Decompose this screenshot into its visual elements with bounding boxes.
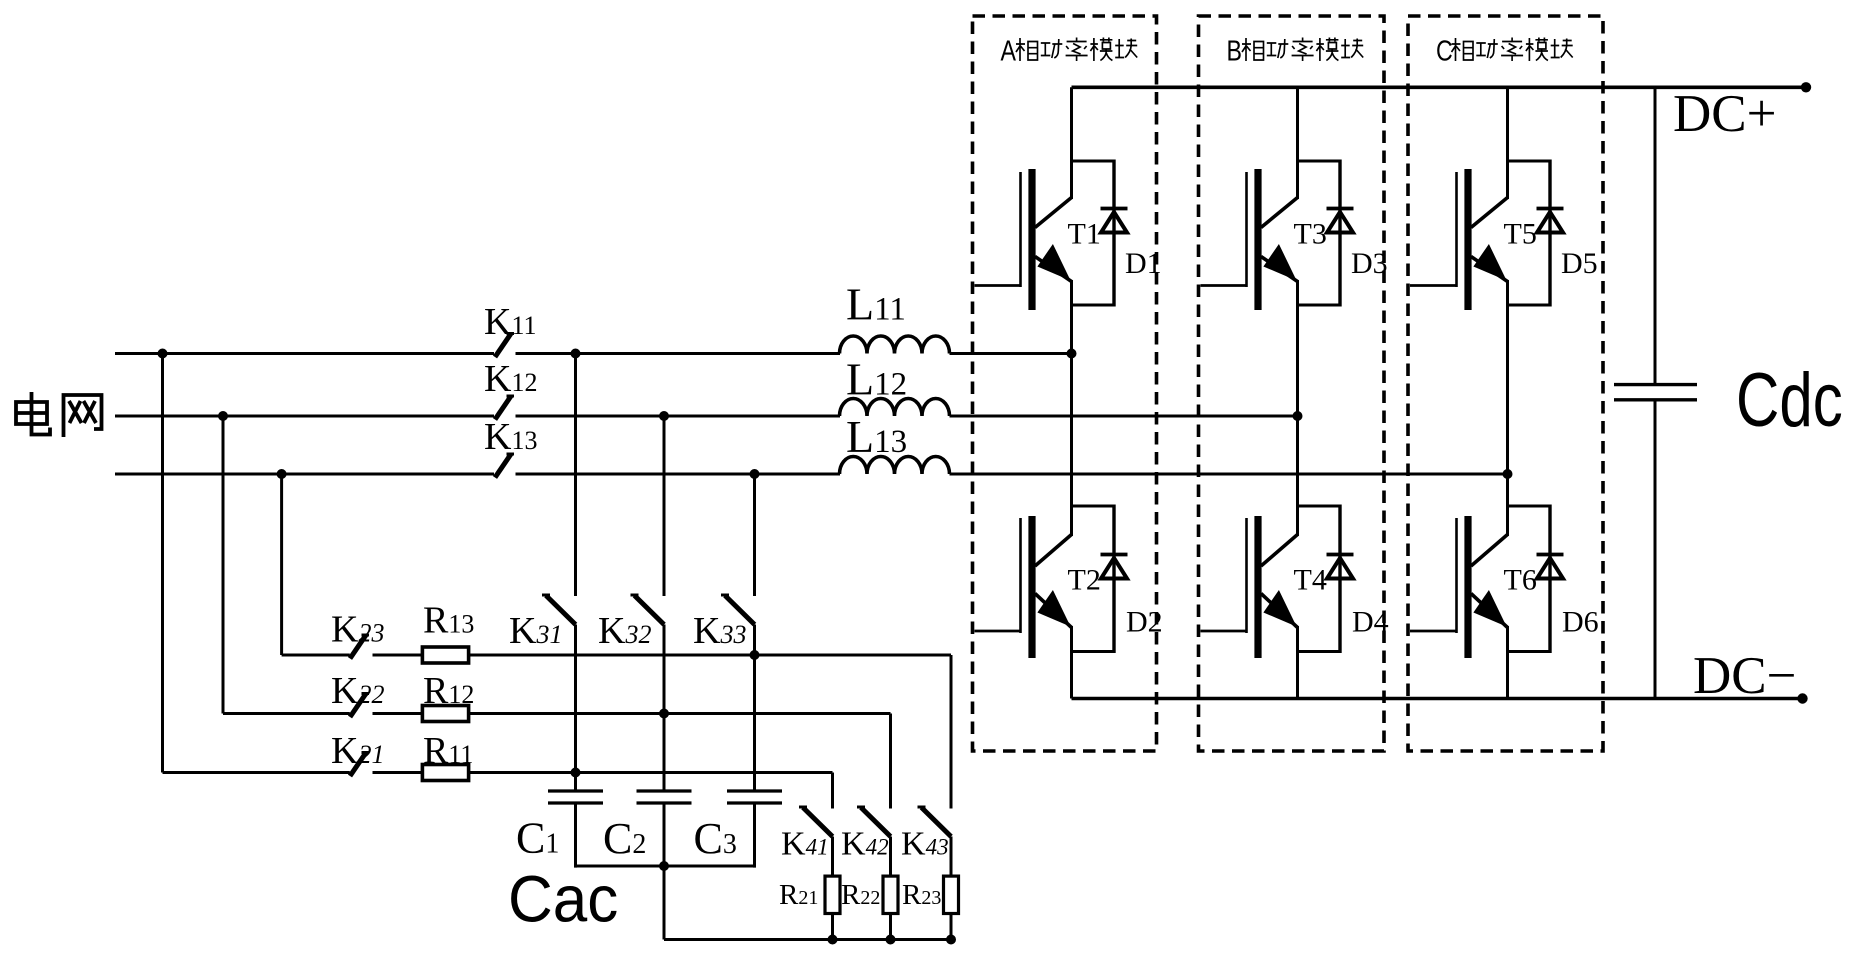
svg-text:DC+: DC+ [1673, 85, 1777, 143]
wire K41 to R21 [831, 837, 834, 877]
emitter arrow T3 [1263, 244, 1296, 281]
gate wire T1 [975, 284, 1021, 287]
node DC+ terminal [1801, 82, 1811, 92]
wire R23 lower lead [950, 914, 953, 940]
svg-text:D6: D6 [1562, 606, 1599, 639]
wire grid phase b segment 2 [516, 415, 841, 418]
wire T3 emitter lead [1296, 280, 1299, 416]
collector diagonal T2 [1035, 535, 1072, 567]
gate electrode line T1 [1019, 172, 1022, 287]
wire R21 lower lead [831, 914, 834, 940]
wire K21 row lead-in [163, 771, 350, 774]
capacitor C2 [637, 789, 692, 792]
resistor R12 [422, 706, 468, 722]
diode branch top wire D1 [1072, 160, 1115, 163]
diode branch wire D5 [1548, 160, 1551, 307]
emitter diagonal T1 [1035, 257, 1072, 282]
wire K23 row lead-in [282, 654, 350, 657]
wire R11 row lead-out [469, 771, 833, 774]
diode triangle D1 [1101, 212, 1127, 233]
node phase C output [1503, 469, 1513, 479]
IGBT body bar T2 [1028, 516, 1035, 658]
resistor R23 [944, 876, 959, 913]
wire T2 collector lead [1070, 354, 1073, 537]
diode cathode bar D4 [1327, 553, 1354, 557]
resistor R22 [883, 876, 898, 913]
gate wire T6 [1410, 630, 1457, 633]
wire K33 lower lead [753, 625, 756, 792]
IGBT body bar T4 [1254, 516, 1261, 658]
wire Cdc upper lead [1654, 87, 1657, 383]
wire T6 collector lead [1506, 474, 1509, 536]
capacitor Cdc [1614, 383, 1697, 386]
wire phase b left drop [222, 416, 225, 714]
wire grid phase a segment 2 [516, 352, 841, 355]
label C相功率模块 [1436, 34, 1573, 67]
node R22 bottom junction [886, 935, 896, 945]
diode branch wire D2 [1112, 505, 1115, 654]
svg-text:D1: D1 [1125, 247, 1162, 280]
capacitor C1 [548, 789, 603, 792]
diode triangle D3 [1327, 212, 1353, 233]
emitter diagonal T3 [1261, 257, 1298, 282]
wire DC- rail [1072, 697, 1803, 701]
gate electrode line T4 [1245, 518, 1248, 633]
wire K42 upper lead [889, 714, 892, 809]
emitter diagonal T5 [1471, 257, 1508, 282]
node R23 bottom junction [946, 935, 956, 945]
wire K33 upper lead [753, 474, 756, 596]
svg-text:T5: T5 [1504, 218, 1537, 251]
svg-text:D2: D2 [1126, 606, 1163, 639]
wire T5 emitter lead [1506, 280, 1509, 474]
node DC- terminal [1797, 693, 1807, 703]
emitter arrow T1 [1037, 244, 1070, 281]
collector diagonal T1 [1035, 198, 1072, 228]
wire T4 emitter lead [1296, 626, 1299, 699]
node phase b left tap [218, 411, 228, 421]
svg-text:Cac: Cac [508, 862, 618, 936]
diode branch top wire D2 [1072, 505, 1115, 508]
wire K32 upper lead [663, 416, 666, 596]
svg-text:T2: T2 [1068, 564, 1101, 597]
wire C3 bottom lead [753, 803, 756, 868]
switch K42 [861, 808, 891, 837]
diode cathode bar D5 [1537, 207, 1564, 211]
wire C2 bottom lead [663, 803, 666, 868]
switch K32 [635, 596, 665, 625]
wire capacitor tie bar [576, 865, 755, 868]
wire grid phase c segment 3 [950, 473, 1508, 476]
svg-text:C: C [1436, 34, 1453, 67]
collector diagonal T5 [1471, 198, 1508, 228]
resistor R13 [422, 647, 468, 663]
wire R13 row lead-out [469, 654, 951, 657]
node R11-K31 junction [571, 768, 581, 778]
label Cac [508, 862, 618, 936]
node R12-K32 junction [659, 709, 669, 719]
switch K13 [495, 454, 511, 478]
svg-text:T4: T4 [1294, 564, 1327, 597]
node phase b right tap [659, 411, 669, 421]
svg-text:A: A [1001, 34, 1017, 67]
label A相功率模块 [1001, 34, 1138, 67]
diode branch top wire D4 [1298, 505, 1341, 508]
resistor R11 [422, 765, 468, 781]
diode cathode bar D6 [1537, 553, 1564, 557]
wire K42 to R22 [889, 837, 892, 877]
switch K41 [803, 808, 833, 837]
wire C1 bottom lead [574, 803, 577, 868]
wire grid phase a segment 3 [950, 352, 1072, 355]
node phase c left tap [277, 469, 287, 479]
wire grid phase c segment 1 [115, 473, 494, 476]
wire grid phase a segment 1 [115, 352, 494, 355]
IGBT body bar T3 [1254, 169, 1261, 310]
diode cathode bar D2 [1101, 553, 1128, 557]
svg-text:T1: T1 [1068, 218, 1101, 251]
wire K43 upper lead [950, 655, 953, 809]
diode branch wire D3 [1338, 160, 1341, 307]
switch K33 [725, 596, 755, 625]
wire K31 lower lead [574, 625, 577, 792]
emitter diagonal T4 [1261, 594, 1298, 628]
inductor L13 [840, 457, 950, 475]
IGBT body bar T1 [1028, 169, 1035, 310]
module box A [973, 16, 1157, 751]
resistor R21 [825, 876, 840, 913]
svg-text:Cdc: Cdc [1736, 357, 1843, 443]
diode triangle D4 [1327, 558, 1353, 579]
switch K23 [350, 635, 366, 659]
svg-text:D3: D3 [1351, 247, 1388, 280]
diode branch top wire D6 [1508, 505, 1551, 508]
gate wire T3 [1201, 284, 1247, 287]
wire R22 lower lead [889, 914, 892, 940]
wire T5 collector lead [1506, 87, 1509, 199]
emitter diagonal T6 [1471, 594, 1508, 628]
gate wire T5 [1410, 284, 1457, 287]
diode branch bottom wire D2 [1072, 650, 1115, 653]
switch K22 [350, 694, 366, 718]
label B相功率模块 [1227, 34, 1364, 67]
module box B [1199, 16, 1385, 751]
wire K32 lower lead [663, 625, 666, 792]
IGBT body bar T6 [1464, 516, 1471, 658]
wire T1 collector lead [1070, 87, 1073, 199]
wire K23 to R13 [373, 654, 424, 657]
label 电网 (grid) [16, 392, 50, 435]
wire K22 to R12 [373, 712, 424, 715]
wire grid phase b segment 3 [950, 415, 1298, 418]
wire grid phase c segment 2 [516, 473, 841, 476]
svg-text:D4: D4 [1352, 606, 1389, 639]
IGBT body bar T5 [1464, 169, 1471, 310]
switch K21 [350, 753, 366, 777]
diode branch bottom wire D4 [1298, 650, 1341, 653]
gate electrode line T6 [1455, 518, 1458, 633]
capacitor C3 [727, 789, 782, 792]
svg-text:T6: T6 [1504, 564, 1537, 597]
emitter arrow T5 [1473, 244, 1506, 281]
diode triangle D2 [1101, 558, 1127, 579]
svg-text:DC−: DC− [1693, 647, 1797, 705]
module box C [1408, 16, 1603, 751]
collector diagonal T4 [1261, 535, 1298, 567]
gate electrode line T2 [1019, 518, 1022, 633]
wire discharge bottom bus [664, 938, 951, 941]
diode branch bottom wire D3 [1298, 304, 1341, 307]
wire T1 emitter lead [1070, 280, 1073, 354]
svg-text:B: B [1227, 34, 1242, 67]
diode triangle D5 [1537, 212, 1563, 233]
wire K31 upper lead [574, 354, 577, 597]
diode branch bottom wire D5 [1508, 304, 1551, 307]
wire grid phase b segment 1 [115, 415, 494, 418]
node R21 bottom junction [828, 935, 838, 945]
emitter diagonal T2 [1035, 594, 1072, 628]
diode cathode bar D3 [1327, 207, 1354, 211]
node phase c right tap [750, 469, 760, 479]
node phase B output [1293, 411, 1303, 421]
collector diagonal T3 [1261, 198, 1298, 228]
wire T2 emitter lead [1070, 626, 1073, 699]
wire K22 row lead-in [223, 712, 350, 715]
wire phase a left drop [161, 354, 164, 773]
switch K43 [922, 808, 952, 837]
diode branch wire D4 [1338, 505, 1341, 654]
diode triangle D6 [1537, 558, 1563, 579]
wire R12 row lead-out [469, 712, 891, 715]
gate wire T4 [1201, 630, 1247, 633]
diode branch top wire D5 [1508, 160, 1551, 163]
inductor L11 [840, 336, 950, 354]
node phase a right tap [571, 349, 581, 359]
diode branch wire D1 [1112, 160, 1115, 307]
node phase a left tap [158, 349, 168, 359]
label Cdc [1736, 357, 1843, 443]
emitter arrow T2 [1037, 590, 1070, 627]
inductor L12 [840, 399, 950, 417]
diode branch top wire D3 [1298, 160, 1341, 163]
switch K12 [495, 396, 511, 420]
wire K41 upper lead [831, 773, 834, 809]
diode branch bottom wire D6 [1508, 650, 1551, 653]
diode branch bottom wire D1 [1072, 304, 1115, 307]
node R13-K33 junction [750, 650, 760, 660]
node phase A output [1067, 349, 1077, 359]
gate electrode line T5 [1455, 172, 1458, 287]
wire T4 collector lead [1296, 416, 1299, 536]
wire Cdc lower lead [1654, 400, 1657, 699]
wire phase c left drop [280, 474, 283, 655]
wire DC+ rail [1072, 86, 1807, 90]
emitter arrow T4 [1263, 590, 1296, 627]
collector diagonal T6 [1471, 535, 1508, 567]
gate electrode line T3 [1245, 172, 1248, 287]
wire tie drop [663, 866, 666, 940]
wire K21 to R11 [373, 771, 424, 774]
node capacitor tie junction [659, 861, 669, 871]
switch K31 [546, 596, 576, 625]
diode branch wire D6 [1548, 505, 1551, 654]
emitter arrow T6 [1473, 590, 1506, 627]
wire T6 emitter lead [1506, 626, 1509, 699]
gate wire T2 [975, 630, 1021, 633]
svg-text:D5: D5 [1561, 247, 1598, 280]
wire T3 collector lead [1296, 87, 1299, 199]
wire K43 to R23 [950, 837, 953, 877]
switch K11 [495, 334, 511, 358]
diode cathode bar D1 [1101, 207, 1128, 211]
svg-text:T3: T3 [1294, 218, 1327, 251]
